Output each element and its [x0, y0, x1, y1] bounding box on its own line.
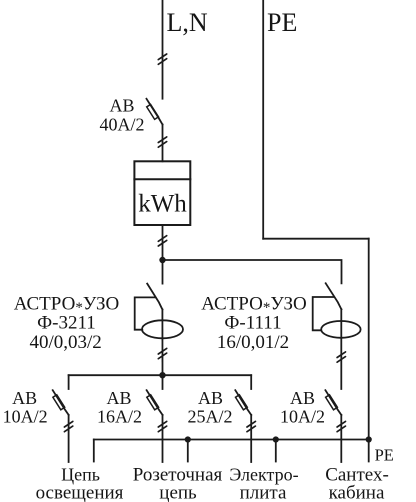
two-conductor mark above meter — [158, 137, 166, 147]
meter kWh box — [134, 161, 190, 225]
RCD2 blade — [326, 283, 342, 309]
wire PE bottom bus — [94, 439, 369, 441]
svg-text:АВ: АВ — [106, 388, 131, 408]
svg-text:Цепь: Цепь — [61, 465, 100, 485]
breaker QF1 blade — [147, 99, 163, 125]
breaker QF3 blade — [147, 390, 163, 415]
wire PE tap circuit 1 — [93, 440, 95, 462]
node PE tap 3 dot — [274, 437, 278, 441]
wire meter to node A — [162, 225, 164, 284]
svg-text:16А/2: 16А/2 — [97, 407, 142, 427]
svg-text:Ф-1111: Ф-1111 — [224, 313, 281, 334]
wire breaker QF3 to load — [162, 415, 164, 462]
two-conductor mark below RCD2 — [337, 352, 345, 362]
node PE tap 2 dot — [186, 437, 190, 441]
wire branch node A to right RCD — [163, 260, 342, 283]
svg-text:освещения: освещения — [36, 483, 124, 502]
wire breaker QF1 to meter — [162, 125, 164, 162]
svg-text:L,N: L,N — [167, 8, 208, 37]
svg-text:PE: PE — [375, 446, 394, 465]
wire PE incoming vertical — [262, 0, 264, 239]
two-conductor mark circuit 4 — [337, 421, 345, 431]
breaker QF5 blade — [325, 390, 341, 415]
svg-text:АВ: АВ — [12, 388, 37, 408]
breaker QF1 release rectangle — [147, 104, 159, 119]
svg-text:АВ: АВ — [198, 388, 223, 408]
svg-text:АВ: АВ — [290, 388, 315, 408]
node B junction dot on bus — [160, 373, 165, 378]
svg-text:цепь: цепь — [159, 483, 197, 502]
wire breaker QF5 to load — [340, 415, 342, 462]
wire distribution bus — [69, 374, 252, 376]
wire breaker QF2 to load — [68, 415, 70, 462]
breaker QF4 blade — [235, 390, 251, 415]
two-conductor mark below meter — [158, 236, 166, 246]
wire breaker QF4 to load — [250, 415, 252, 462]
wire bus drop left — [68, 375, 70, 389]
RCD1 differential transformer ellipse — [142, 320, 183, 338]
svg-text:40/0,03/2: 40/0,03/2 — [29, 332, 101, 353]
svg-text:Ф-3211: Ф-3211 — [37, 313, 96, 334]
wire bus drop middle — [162, 375, 164, 389]
breaker QF4 release rectangle — [235, 395, 247, 410]
wire PE horizontal jog — [263, 238, 369, 240]
svg-text:10А/2: 10А/2 — [3, 407, 48, 427]
node PE feeder-bus junction dot — [367, 437, 371, 441]
meter kWh divider — [134, 178, 190, 180]
svg-text:kWh: kWh — [138, 191, 187, 218]
node A junction dot — [160, 258, 165, 263]
RCD2 differential transformer ellipse — [321, 321, 360, 338]
svg-text:PE: PE — [267, 8, 297, 37]
RCD2 actuator bracket — [313, 297, 334, 330]
wire RCD1 to bus — [161, 310, 163, 376]
svg-text:25А/2: 25А/2 — [188, 407, 233, 427]
breaker QF2 blade — [53, 390, 69, 415]
svg-text:40А/2: 40А/2 — [100, 115, 145, 135]
wire L,N incoming vertical — [162, 0, 164, 99]
svg-text:10А/2: 10А/2 — [280, 407, 325, 427]
two-conductor mark below RCD1 — [158, 348, 166, 358]
wire PE tap circuit 2 — [187, 440, 189, 462]
svg-text:плита: плита — [240, 483, 287, 502]
svg-text:Электро-: Электро- — [229, 465, 298, 485]
two-conductor mark circuit 3 — [247, 421, 255, 431]
svg-text:16/0,01/2: 16/0,01/2 — [217, 332, 289, 353]
wire RCD2 down to breaker QF5 — [340, 309, 342, 389]
two-conductor mark on L,N incoming — [158, 54, 166, 64]
svg-text:кабина: кабина — [329, 483, 385, 502]
RCD1 actuator bracket — [135, 297, 155, 329]
two-conductor mark circuit 2 — [158, 421, 166, 431]
breaker QF5 release rectangle — [326, 395, 338, 410]
breaker QF3 release rectangle — [147, 395, 159, 410]
svg-text:АВ: АВ — [109, 96, 134, 116]
breaker QF2 release rectangle — [53, 395, 65, 410]
wire PE tap circuit 3 — [275, 440, 277, 462]
two-conductor mark circuit 1 — [64, 421, 72, 431]
wire bus drop right — [250, 375, 252, 389]
RCD1 blade — [147, 284, 162, 310]
wire PE right feeder — [368, 239, 370, 462]
